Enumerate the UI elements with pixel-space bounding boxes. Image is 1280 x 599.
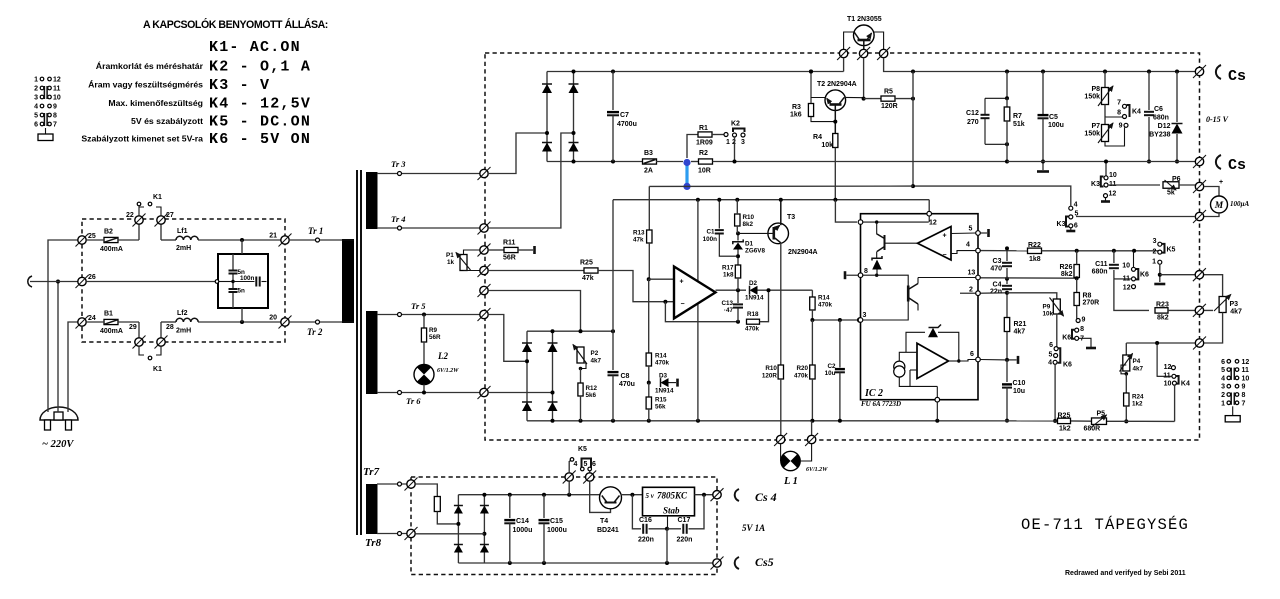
svg-text:C15: C15: [550, 518, 563, 525]
svg-text:11: 11: [1242, 367, 1250, 374]
wire R4 down to rail end: [834, 148, 836, 200]
svg-text:C14: C14: [516, 518, 529, 525]
wire 5V bottom rail: [458, 562, 717, 564]
svg-text:27: 27: [166, 212, 174, 219]
IC2 pin5 external bar: [980, 232, 987, 234]
wire IC2 pin13 to R26 bottom: [980, 277, 1076, 279]
wire pin6 to comp node: [980, 359, 1007, 361]
svg-text:4: 4: [1048, 360, 1052, 367]
bridge3 diode lower-left: [457, 524, 459, 563]
svg-text:C6: C6: [1154, 106, 1163, 113]
svg-text:P3: P3: [1230, 301, 1239, 308]
wire negative rail (0V): [547, 161, 643, 163]
IC2 output pin6 wire: [949, 360, 959, 362]
svg-text:5k: 5k: [1167, 190, 1175, 197]
wire C11 node down to R23: [1114, 279, 1149, 311]
wire 25-B2-K1: [86, 239, 104, 241]
svg-text:K6: K6: [1062, 335, 1071, 342]
wire R14 to D3 node: [648, 366, 650, 383]
wire IC2 pin4 to R22: [980, 250, 1027, 252]
svg-text:R10: R10: [743, 214, 755, 221]
svg-text:1000u: 1000u: [547, 527, 567, 534]
diode D2 1N914: [750, 286, 758, 295]
terminal 24: [76, 316, 89, 329]
svg-text:120R: 120R: [881, 103, 898, 110]
box to Tr1/Tr2 stubs: [241, 240, 243, 254]
resistor R9 56R: [422, 313, 426, 317]
mains plug: [40, 407, 78, 420]
wire T1 emitter down: [863, 58, 865, 99]
wire C11 to K6c pin11: [1114, 278, 1132, 280]
wire lower rail to Cs: [1007, 161, 1200, 163]
svg-text:R24: R24: [1132, 394, 1144, 401]
svg-text:P4: P4: [1133, 358, 1141, 365]
bridge2 diode lower left: [526, 361, 528, 421]
svg-text:3: 3: [1153, 238, 1157, 245]
svg-text:2: 2: [34, 86, 38, 93]
terminal K5 right: [583, 471, 596, 484]
svg-text:C4: C4: [993, 282, 1002, 289]
svg-text:R3: R3: [792, 104, 801, 111]
svg-text:R18: R18: [747, 311, 759, 318]
svg-text:5: 5: [34, 113, 38, 120]
capacitor C8 470u: [612, 331, 614, 370]
potentiometer P2 4k7: [577, 347, 584, 363]
resistor R3 1k6: [808, 104, 813, 117]
IC2 bottom pin: [936, 386, 938, 397]
svg-text:R25: R25: [580, 260, 593, 267]
svg-text:1R09: 1R09: [696, 140, 713, 147]
wire 5V top rail: [458, 494, 600, 496]
terminal P3 top row: [1193, 268, 1206, 281]
svg-text:Max. kimenőfeszültség: Max. kimenőfeszültség: [108, 98, 203, 108]
svg-text:R5: R5: [884, 89, 893, 96]
svg-text:P9: P9: [1043, 304, 1051, 311]
wire T1 collector to right rail: [884, 58, 1200, 72]
svg-text:K4: K4: [1181, 381, 1190, 388]
capacitor C14 1000u: [509, 495, 511, 518]
svg-text:D12: D12: [1158, 123, 1171, 130]
bridge rectifier diode D5 (top left): [546, 72, 548, 134]
svg-text:3: 3: [741, 139, 745, 146]
svg-text:9: 9: [1119, 123, 1123, 130]
wire K2 pin2 down to rail: [734, 137, 736, 162]
svg-text:2: 2: [969, 287, 973, 294]
IC2 internal transistor Qa: [884, 235, 886, 250]
switch K3 (4 5 6): [1069, 206, 1073, 210]
wire terminal to P2: [488, 291, 580, 332]
svg-text:25: 25: [88, 233, 96, 240]
svg-text:7805KC: 7805KC: [657, 491, 688, 501]
node blue junction: [691, 161, 699, 163]
svg-text:56R: 56R: [429, 334, 441, 341]
svg-text:4k7: 4k7: [1014, 329, 1026, 336]
wire mains right: [68, 322, 80, 412]
wire Tr8: [377, 533, 409, 535]
main circuit dashed border: [485, 53, 1200, 440]
svg-text:R20: R20: [796, 365, 808, 372]
svg-text:IC 2: IC 2: [864, 388, 883, 399]
wire R25 to minus input: [598, 271, 674, 302]
svg-text:T4: T4: [600, 518, 608, 525]
resistor R8 270R: [1076, 279, 1078, 292]
resistor R2 10R: [699, 159, 713, 164]
wire K5 node to P3 top: [1160, 275, 1223, 296]
svg-text:Cs5: Cs5: [755, 555, 774, 569]
svg-text:Tr 2: Tr 2: [307, 327, 323, 337]
switch K4b (12 11 10): [1171, 366, 1175, 370]
resistor R7 51k: [1006, 98, 1008, 107]
svg-text:P2: P2: [591, 350, 599, 357]
wire T3 emitter down: [780, 243, 782, 365]
svg-text:R22: R22: [1028, 242, 1041, 249]
blue wire highlight: [685, 163, 688, 186]
wire IC2 pin2 to P9: [980, 292, 1007, 294]
svg-text:B1: B1: [104, 311, 113, 318]
wire Tr3 terminal into box: [478, 167, 491, 180]
resistor R18 470k: [747, 319, 760, 324]
wire rail corner to IC2 pin2 top-left: [835, 200, 857, 222]
svg-text:A KAPCSOLÓK BENYOMOTT ÁLLÁSA:: A KAPCSOLÓK BENYOMOTT ÁLLÁSA:: [143, 18, 328, 31]
svg-text:4: 4: [1221, 375, 1225, 382]
svg-text:C12: C12: [966, 110, 979, 117]
wire R10b to terminal: [780, 379, 782, 435]
terminal K5 left: [563, 471, 576, 484]
terminal Tr8: [405, 527, 418, 540]
wire K6b pin4 down to rail: [1054, 364, 1056, 421]
svg-text:C13: C13: [721, 300, 733, 307]
svg-text:Áramkorlát és méréshatár: Áramkorlát és méréshatár: [96, 61, 204, 71]
resistor R20 470k: [811, 320, 813, 365]
svg-text:R9: R9: [429, 327, 438, 334]
svg-text:T3: T3: [787, 214, 795, 221]
svg-text:C8: C8: [621, 373, 630, 380]
svg-text:3: 3: [34, 95, 38, 102]
svg-text:7: 7: [1117, 100, 1121, 107]
push button symbol: [45, 128, 47, 134]
terminal T1 emitter: [857, 47, 870, 60]
svg-text:5: 5: [1221, 367, 1225, 374]
svg-text:6V/1.2W: 6V/1.2W: [806, 467, 828, 473]
svg-text:120R: 120R: [762, 373, 778, 380]
P4 wiper loop: [1121, 365, 1126, 374]
wire T3 base: [738, 232, 774, 234]
op-amp U1: [674, 267, 716, 319]
wire 26 into box: [86, 281, 216, 283]
svg-text:C17: C17: [678, 517, 691, 524]
svg-text:10k: 10k: [1043, 311, 1054, 318]
bridge3 diode upper-right: [483, 495, 485, 534]
resistor R10b 120R: [778, 365, 783, 379]
P2 wiper loop: [581, 363, 587, 369]
wire 21 to Tr1: [289, 239, 340, 241]
svg-text:4k7: 4k7: [1230, 309, 1242, 316]
capacitor C7 4700u: [612, 72, 614, 111]
wire pin3 node: [812, 319, 859, 321]
capacitor C10 10u: [1002, 383, 1012, 385]
resistor R11 56R: [488, 249, 504, 251]
svg-text:4k7: 4k7: [591, 358, 602, 365]
wire K5 terminal to rail: [568, 481, 570, 495]
terminal Cs5: [711, 557, 724, 570]
svg-text:11: 11: [53, 86, 61, 93]
svg-text:Tr 6: Tr 6: [406, 396, 421, 406]
bridge3 diode lower-right: [483, 534, 485, 563]
svg-text:47k: 47k: [582, 275, 594, 282]
svg-text:7: 7: [53, 122, 57, 129]
lamp L1: [780, 444, 782, 461]
wire R18 up to output node: [760, 290, 769, 322]
svg-text:4: 4: [966, 242, 970, 249]
wire R22 to K5: [1042, 250, 1159, 252]
wire T4 collector node: [621, 494, 643, 496]
svg-text:51k: 51k: [1013, 121, 1025, 128]
svg-text:12: 12: [1164, 364, 1172, 371]
capacitor C11 680n: [1113, 251, 1115, 263]
bridge2 diode upper right: [552, 331, 554, 392]
switch K6 (6 5 4): [1054, 347, 1058, 351]
svg-text:6: 6: [1049, 342, 1053, 349]
wire K6c pin10 up to R22 line: [1133, 251, 1135, 267]
svg-text:7: 7: [1080, 336, 1084, 343]
capacitor 5n bottom: [232, 275, 234, 289]
svg-text:4: 4: [574, 461, 578, 468]
svg-text:8: 8: [1242, 392, 1246, 399]
svg-text:8: 8: [1117, 110, 1121, 117]
wire y200 rail: [613, 199, 929, 201]
capacitor 100n: [219, 281, 233, 283]
svg-text:28: 28: [166, 324, 174, 331]
wire Tr5 to bridge2: [488, 315, 525, 362]
svg-text:5: 5: [969, 226, 973, 233]
svg-text:5 v: 5 v: [646, 492, 655, 500]
svg-text:6: 6: [970, 351, 974, 358]
resistor R23 8k2: [1155, 308, 1168, 313]
meter M 100uA: [1204, 187, 1219, 197]
svg-text:13: 13: [968, 270, 976, 277]
svg-text:C7: C7: [620, 112, 629, 119]
svg-text:D2: D2: [749, 280, 758, 287]
svg-text:R8: R8: [1083, 293, 1092, 300]
svg-text:R10: R10: [765, 365, 777, 372]
svg-text:6V/1.2W: 6V/1.2W: [437, 368, 459, 374]
wire rail to L1 terminal: [811, 421, 813, 436]
wire T3 collector to rail: [780, 200, 782, 226]
svg-text:470k: 470k: [745, 326, 760, 333]
svg-text:K4: K4: [1132, 109, 1141, 116]
svg-text:9: 9: [1242, 384, 1246, 391]
wire Tr6 to bridge2: [488, 392, 552, 394]
svg-text:OE-711 TÁPEGYSÉG: OE-711 TÁPEGYSÉG: [1021, 516, 1189, 534]
resistor R4 10k: [833, 134, 838, 148]
wire bridge2 top rail: [527, 330, 613, 332]
potentiometer P9 10k: [1053, 299, 1060, 314]
svg-text:1k8: 1k8: [723, 272, 734, 279]
svg-text:Tr 5: Tr 5: [411, 301, 426, 311]
svg-text:+: +: [1219, 179, 1223, 186]
svg-text:8: 8: [1080, 326, 1084, 333]
svg-text:8: 8: [864, 268, 868, 275]
svg-text:7: 7: [1242, 400, 1246, 407]
IC U2 box uA723: [861, 214, 979, 400]
svg-text:680n: 680n: [1092, 269, 1108, 276]
bridge2 diode upper left: [526, 331, 528, 361]
svg-text:220n: 220n: [638, 537, 654, 544]
wire T1 base to top rail: [843, 58, 845, 72]
bridge rectifier diode D7 (bottom left): [546, 133, 548, 162]
wire R14 divider down: [648, 279, 650, 353]
svg-text:R15: R15: [655, 397, 667, 404]
svg-text:R7: R7: [1013, 113, 1022, 120]
fuse B2 400mA: [104, 237, 118, 242]
wire P9 to K6 pin6: [1056, 314, 1058, 347]
transformer secondary Tr3/Tr4 bar: [366, 172, 378, 229]
svg-text:8k2: 8k2: [1061, 271, 1073, 278]
potentiometer P1 1k: [460, 255, 467, 271]
inductor Lf2 2mH: [161, 321, 176, 323]
mains connector bracket: [28, 276, 32, 287]
svg-text:B2: B2: [104, 229, 113, 236]
zener D1 ZG6V8: [737, 233, 739, 240]
svg-text:10: 10: [1164, 381, 1172, 388]
svg-text:D3: D3: [659, 373, 668, 380]
potentiometer P7 150k: [1104, 117, 1106, 124]
svg-text:10: 10: [1242, 375, 1250, 382]
svg-text:1N914: 1N914: [655, 388, 674, 395]
svg-text:26: 26: [88, 274, 96, 281]
wire Tr7: [377, 483, 409, 485]
svg-text:6: 6: [34, 122, 38, 129]
svg-text:1k2: 1k2: [1059, 426, 1071, 433]
push button symbol (bottom right): [1232, 406, 1234, 415]
resistor R13 47k: [648, 186, 650, 230]
wire Tr3: [377, 173, 484, 175]
svg-text:24: 24: [88, 315, 96, 322]
svg-text:5: 5: [584, 461, 588, 468]
ground below C5: [1037, 170, 1049, 173]
svg-text:~ 220V: ~ 220V: [42, 439, 74, 450]
dashed box mains filter: [82, 219, 285, 342]
svg-text:9: 9: [53, 104, 57, 111]
wire pin6 node with test bar: [1005, 358, 1009, 362]
resistor R25 47k: [488, 270, 584, 272]
svg-text:12: 12: [929, 220, 937, 227]
svg-text:P1: P1: [446, 252, 454, 259]
wire rail under T2 to C12 column: [811, 161, 1007, 163]
svg-text:Tr7: Tr7: [363, 466, 380, 478]
fuse B3 2A: [643, 159, 657, 164]
capacitor C15 1000u: [543, 495, 545, 518]
IC2 internal current source: [894, 361, 905, 372]
potentiometer P6 5k: [1163, 182, 1179, 189]
svg-text:R14: R14: [818, 295, 830, 302]
connector Cs4: [735, 489, 739, 501]
svg-text:R2: R2: [699, 150, 708, 157]
svg-text:Tr 1: Tr 1: [308, 226, 323, 236]
svg-text:2: 2: [1152, 249, 1156, 256]
svg-text:K2 - O,1 A: K2 - O,1 A: [209, 59, 311, 76]
capacitor C6 680n: [1148, 72, 1150, 111]
svg-text:47k: 47k: [633, 237, 644, 244]
resistor R14b 470k: [811, 290, 813, 297]
svg-text:2mH: 2mH: [176, 245, 191, 252]
inductor Lf1 2mH: [161, 239, 176, 241]
svg-text:B3: B3: [644, 150, 653, 157]
svg-text:R23: R23: [1156, 302, 1169, 309]
wire x613 from y200 node: [612, 200, 614, 332]
wire R3 to base node: [811, 117, 835, 122]
svg-text:270: 270: [967, 119, 979, 126]
svg-text:T1 2N3055: T1 2N3055: [847, 16, 882, 23]
IC2 pin8 stub with bar: [858, 273, 863, 278]
wire meter to K3b pin5: [1076, 216, 1195, 218]
svg-text:ZG6V8: ZG6V8: [745, 248, 765, 255]
svg-text:5k6: 5k6: [586, 392, 597, 399]
capacitor C12 270: [1006, 72, 1008, 99]
svg-text:1: 1: [1221, 400, 1225, 407]
svg-text:8: 8: [53, 113, 57, 120]
resistor R12 5k6: [580, 369, 582, 384]
wire mains left: [48, 240, 80, 412]
wire Tr6: [377, 392, 484, 394]
svg-text:10R: 10R: [698, 168, 711, 175]
wire T2 base to rail: [811, 72, 826, 98]
svg-text:+: +: [680, 279, 684, 286]
switch K6 (9 8 7): [1076, 319, 1080, 323]
svg-text:Cs 4: Cs 4: [755, 490, 777, 504]
svg-text:21: 21: [269, 233, 277, 240]
svg-text:10u: 10u: [1013, 388, 1025, 395]
IC2 pin5 wire: [976, 231, 981, 236]
connector Cs lower: [1216, 155, 1221, 169]
switch K3 (10 11 12): [1105, 162, 1107, 177]
svg-text:K4 - 12,5V: K4 - 12,5V: [209, 96, 311, 113]
svg-text:270R: 270R: [1083, 300, 1100, 307]
svg-text:D1: D1: [745, 241, 754, 248]
svg-text:K3: K3: [1091, 181, 1100, 188]
svg-text:4: 4: [34, 104, 38, 111]
IC2 internal transistor Qb: [907, 286, 910, 302]
svg-text:−: −: [681, 301, 685, 308]
wire 7805 gnd down: [667, 516, 669, 529]
terminal L1 right: [805, 433, 818, 446]
wire K4b pin11 to y343: [1157, 343, 1172, 376]
wire K3b pin4 to y186 rail: [913, 186, 1071, 206]
svg-text:0-15 V: 0-15 V: [1206, 115, 1229, 124]
terminal meter plus: [1193, 180, 1206, 193]
terminal meter minus: [1193, 210, 1206, 223]
terminal Cs upper: [1193, 65, 1206, 78]
svg-text:R4: R4: [813, 134, 822, 141]
wire T2 collector: [844, 96, 863, 98]
svg-text:P6: P6: [1172, 176, 1181, 183]
svg-text:56k: 56k: [655, 404, 666, 411]
svg-text:220n: 220n: [677, 537, 693, 544]
resistor R21 4k7: [1004, 318, 1009, 332]
svg-text:P5: P5: [1097, 411, 1106, 418]
svg-text:6: 6: [1074, 223, 1078, 230]
svg-text:Lf2: Lf2: [177, 310, 188, 317]
diode D3 1N914: [661, 378, 669, 387]
wire T2 base stem: [834, 105, 836, 134]
wire Tr4: [377, 227, 484, 229]
svg-text:R11: R11: [503, 240, 516, 247]
svg-text:−: −: [942, 252, 946, 259]
svg-text:Lf1: Lf1: [177, 228, 188, 235]
svg-text:R12: R12: [586, 385, 598, 392]
terminal R23 row: [1193, 304, 1206, 317]
svg-text:4: 4: [1074, 202, 1078, 209]
